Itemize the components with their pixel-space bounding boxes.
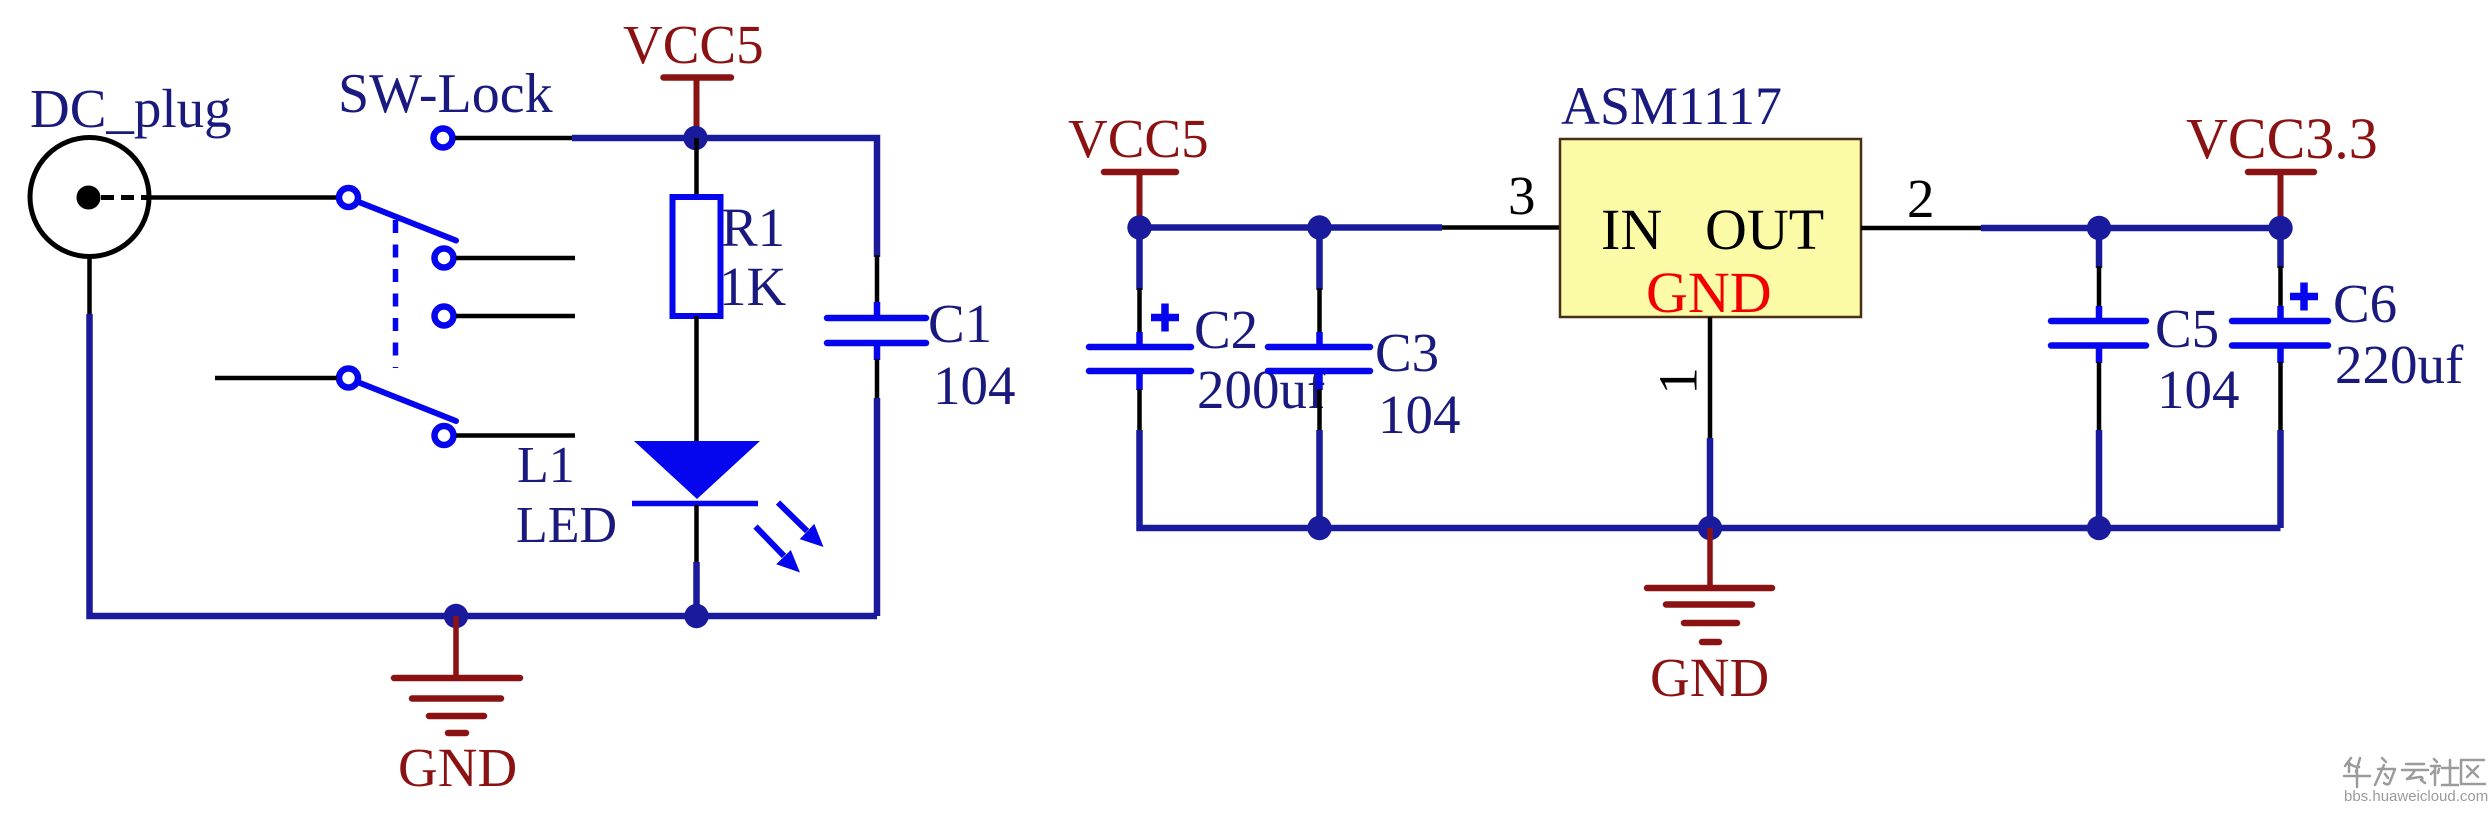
switch blade B (360, 383, 456, 421)
switch SW-Lock pin 1 (434, 129, 453, 148)
svg-text:2: 2 (1907, 168, 1935, 229)
resistor R1 (673, 197, 721, 316)
node C3 bottom junction (1307, 516, 1331, 540)
wire to IN pin (black) (1442, 225, 1561, 230)
svg-text:GND: GND (1650, 647, 1769, 708)
svg-text:220uf: 220uf (2335, 334, 2464, 395)
wire pin1 to VCC5 node (black part) (455, 136, 572, 141)
svg-text:R1: R1 (721, 197, 785, 258)
wire VCC5 node top rail + right drop (navy) (572, 138, 877, 257)
svg-text:3: 3 (1508, 165, 1536, 226)
svg-text:bbs.huaweicloud.com: bbs.huaweicloud.com (2344, 788, 2488, 805)
svg-text:IN: IN (1601, 197, 1662, 262)
svg-text:1: 1 (1648, 367, 1709, 395)
power VCC5 (left) symbol (664, 78, 732, 137)
wire C1 upper lead (black) (875, 255, 880, 304)
regulator U ASM1117 body (1560, 139, 1861, 317)
svg-text:104: 104 (2157, 359, 2240, 420)
LED arrow 2 (756, 527, 801, 573)
wire LED cathode down (black) (694, 505, 699, 562)
switch blade A (360, 203, 456, 241)
wire OUT pin (black) (1861, 226, 1981, 231)
wire C3 lower lead (black) (1317, 389, 1322, 432)
switch SW-Lock pin 3 (435, 249, 454, 268)
LED arrow 1 (778, 503, 824, 548)
wire C5 branch upper (navy) (2096, 228, 2103, 268)
wire LED cathode to rail (navy) (693, 562, 700, 616)
wire C2 branch upper (navy) (1136, 228, 1143, 291)
wire C2 to rail + bottom rail (navy) (1140, 430, 2281, 528)
wire C5 upper lead (black) (2097, 266, 2102, 308)
ground GND (left) (394, 616, 520, 733)
wire C6 upper lead (black) (2278, 266, 2283, 308)
wire DC_plug to switch common (150, 195, 340, 200)
wire C6 to rail corner (navy) (2277, 430, 2284, 528)
svg-text:VCC3.3: VCC3.3 (2186, 106, 2378, 171)
power VCC3.3 symbol (2248, 172, 2314, 226)
node C5 bottom junction (2087, 516, 2111, 540)
node LED-rail junction (684, 604, 708, 628)
svg-text:VCC5: VCC5 (1068, 108, 1209, 169)
svg-text:L1: L1 (517, 437, 575, 494)
power VCC5 (right) symbol (1104, 172, 1176, 226)
svg-text:104: 104 (1378, 384, 1461, 445)
watermark huaweicloud logo text (2344, 758, 2485, 787)
svg-text:C3: C3 (1375, 322, 1439, 383)
switch SW-Lock pin 4 (435, 307, 454, 326)
wire pin5 left stub (215, 376, 337, 381)
wire DC_plug down + bottom rail (navy) (90, 314, 878, 616)
svg-text:SW-Lock: SW-Lock (338, 63, 553, 125)
wire C6 branch upper (navy) (2277, 228, 2284, 268)
svg-text:C6: C6 (2333, 273, 2397, 334)
node VCC5 right junction (1127, 215, 1151, 239)
svg-text:LED: LED (516, 497, 617, 554)
svg-text:C5: C5 (2155, 298, 2219, 359)
switch SW-Lock pin 5 (common B) (339, 369, 358, 388)
capacitor C6 (polarized) (2232, 306, 2328, 363)
svg-text:C1: C1 (928, 293, 992, 354)
svg-text:1K: 1K (719, 256, 787, 317)
wire C1 to rail (navy) (874, 398, 881, 616)
svg-text:ASM1117: ASM1117 (1561, 76, 1782, 136)
switch SW-Lock pin 2 (common A) (339, 188, 358, 207)
capacitor C2 (polarized) (1089, 332, 1191, 390)
wire GND pin to rail (navy) (1707, 438, 1714, 528)
svg-text:GND: GND (1646, 260, 1772, 325)
svg-text:C2: C2 (1194, 299, 1258, 360)
wire C3 branch upper (navy) (1316, 228, 1323, 291)
wire DC_plug bottom lead (black) (87, 257, 92, 314)
wire pin3 stub (456, 256, 575, 261)
wire C2 lower lead (black) (1137, 389, 1142, 432)
wire pin4 stub (456, 314, 575, 319)
wire C2 upper lead (black) (1137, 288, 1142, 334)
capacitor C1 (827, 302, 926, 360)
wire junction to R1 (694, 138, 699, 198)
svg-text:OUT: OUT (1705, 197, 1824, 262)
capacitor C5 (2051, 306, 2146, 363)
C6 plus sign (2290, 283, 2318, 311)
node VCC3.3 junction (2268, 216, 2292, 240)
wire C1 lower lead (black) (875, 359, 880, 400)
capacitor C3 (1268, 332, 1370, 390)
node VCC5 junction (683, 126, 707, 150)
wire VCC5 to IN (navy) (1140, 224, 1443, 231)
wire pin6 stub (456, 433, 575, 438)
svg-text:GND: GND (398, 737, 517, 798)
switch gang link (dashed) (393, 220, 399, 368)
node rail-GND junction (left) (444, 604, 468, 628)
C2 plus sign (1151, 304, 1179, 332)
wire C3 upper lead (black) (1317, 288, 1322, 334)
node C5 top junction (2087, 216, 2111, 240)
switch SW-Lock pin 6 (435, 426, 454, 445)
wire C6 lower lead (black) (2278, 362, 2283, 432)
node C3 top junction (1307, 215, 1331, 239)
svg-text:104: 104 (933, 355, 1016, 416)
node GND junction (1698, 516, 1722, 540)
svg-text:VCC5: VCC5 (623, 14, 764, 75)
svg-text:DC_plug: DC_plug (30, 78, 232, 139)
wire R1 to LED (694, 316, 699, 443)
wire C5 to rail (navy) (2096, 430, 2103, 528)
connector DC_plug (30, 138, 149, 257)
wire C3 to rail (navy) (1316, 430, 1323, 528)
LED L1 (632, 441, 760, 504)
wire OUT to VCC3.3 (navy) (1981, 225, 2281, 232)
wire GND pin 1 (black) (1708, 317, 1713, 440)
wire C5 lower lead (black) (2097, 362, 2102, 432)
ground GND (right) (1647, 528, 1772, 642)
